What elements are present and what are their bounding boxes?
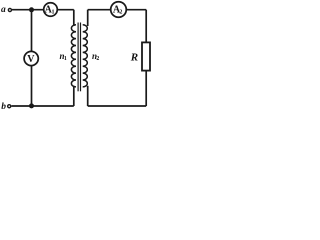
svg-text:2: 2 — [96, 56, 99, 62]
svg-text:a: a — [1, 5, 6, 15]
svg-text:2: 2 — [119, 9, 122, 15]
svg-text:b: b — [1, 102, 6, 112]
svg-text:1: 1 — [64, 56, 67, 62]
svg-text:R: R — [130, 52, 138, 64]
svg-text:1: 1 — [52, 9, 55, 15]
svg-text:V: V — [27, 54, 35, 65]
